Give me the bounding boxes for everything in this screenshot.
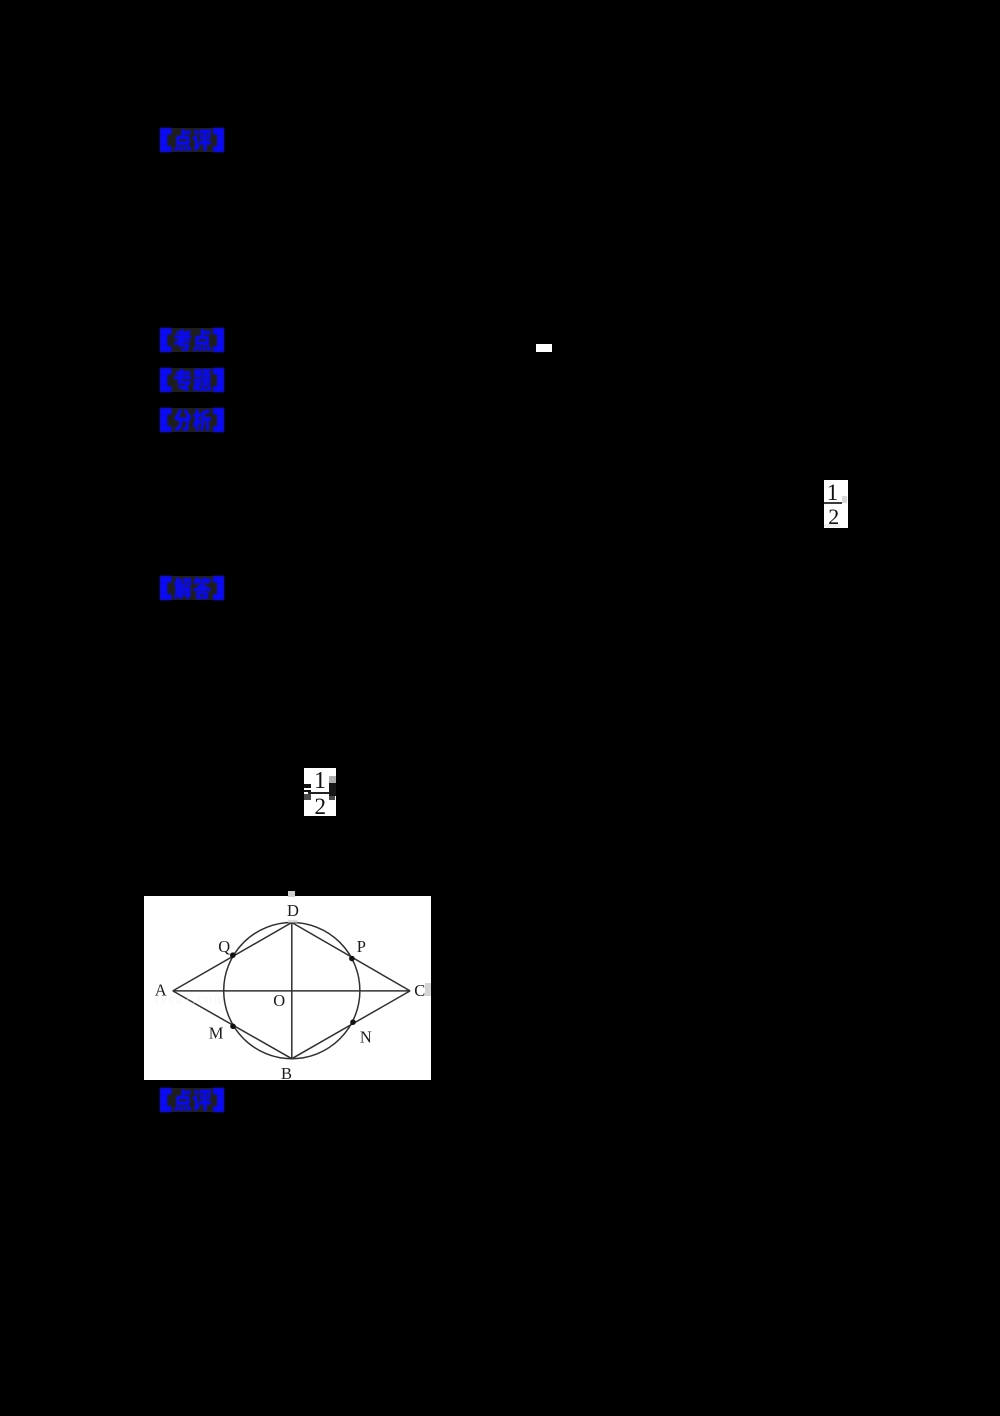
gray mark above figure (by D) <box>288 891 295 898</box>
svg-text:P: P <box>356 937 365 956</box>
geometry figure: rhombus ABCD with circle O <box>144 896 432 1081</box>
svg-text:B: B <box>281 1064 292 1080</box>
diagonal DB <box>290 922 292 1058</box>
svg-text:Q: Q <box>218 937 230 956</box>
point Q <box>230 952 236 958</box>
gray mark at D vertex <box>288 920 298 923</box>
svg-text:N: N <box>360 1027 372 1046</box>
svg-text:M: M <box>208 1023 223 1042</box>
label 【分析】 <box>160 408 224 432</box>
fraction =1/2 left <box>304 768 336 816</box>
fraction 1/2 right <box>824 480 848 528</box>
side AD <box>172 922 291 990</box>
diagonal AC <box>172 990 409 992</box>
svg-text:D: D <box>287 901 299 920</box>
label 【专题】 <box>160 368 224 392</box>
svg-text:O: O <box>273 991 285 1010</box>
side AB <box>172 991 291 1059</box>
point P <box>349 955 355 961</box>
circle O <box>223 922 359 1058</box>
svg-text:A: A <box>154 980 166 999</box>
point M <box>230 1023 236 1029</box>
svg-text:C: C <box>414 981 425 1000</box>
white dash <box>536 344 552 352</box>
label 【解答】 <box>160 576 224 600</box>
side BC <box>291 991 409 1059</box>
point N <box>350 1019 356 1025</box>
label 【考点】 <box>160 328 224 352</box>
label 【点评】 <box>160 1088 224 1112</box>
gray mark right of C <box>425 983 432 996</box>
label 【点评】 <box>160 128 224 152</box>
side DC <box>291 922 409 990</box>
